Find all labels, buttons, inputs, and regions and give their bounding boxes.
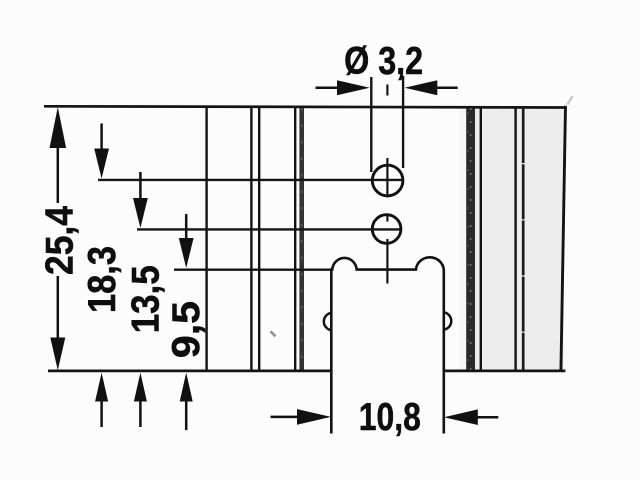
heatsink top edge: [44, 106, 565, 107]
svg-text:18,3: 18,3: [81, 246, 124, 313]
transistor left side bump: [324, 313, 331, 330]
hole diameter extension line left: [370, 77, 372, 172]
bottom arrow up x101: [95, 373, 108, 427]
dim 10,8 arrow left-pointing: [444, 409, 498, 425]
hole 2 (lower): [372, 215, 401, 244]
scan speck: [270, 330, 277, 337]
fin line x251: [250, 108, 252, 370]
fin line x259: [258, 108, 260, 370]
centerline segment top: [386, 85, 388, 96]
heatsink bottom edge left segment: [48, 370, 331, 373]
dim 25,4 arrow down: [50, 276, 65, 370]
dim 13,5 arrow down: [133, 172, 148, 228]
dim 10,8 arrow right-pointing: [271, 409, 331, 425]
dim 25,4 arrow up: [50, 107, 67, 203]
leader line 13,5: [137, 228, 401, 230]
hole diameter extension line right: [402, 76, 404, 168]
leader line 18,3: [98, 179, 403, 181]
body shading right section: [459, 107, 564, 370]
fin band x470 textured: [466, 108, 475, 370]
fin line x481: [480, 108, 482, 370]
fin line x295: [294, 108, 296, 370]
centerline segment through hole 1: [386, 158, 388, 198]
svg-text:13,5: 13,5: [125, 265, 168, 333]
centerline dash between holes: [386, 216, 388, 222]
bottom arrow up x140: [134, 373, 147, 427]
dim 9,5 arrow down: [179, 214, 194, 268]
fin line x515: [514, 108, 516, 370]
scan smudge near top-right corner: [568, 96, 573, 105]
hole 1 (upper): [372, 165, 403, 196]
svg-text:9,5: 9,5: [165, 301, 208, 358]
heatsink bottom edge right segment: [444, 370, 565, 373]
heatsink right edge: [561, 106, 566, 372]
svg-text:10,8: 10,8: [359, 396, 421, 439]
fin line x206: [205, 108, 207, 370]
fin line x523 textured: [522, 108, 525, 370]
centerline segment through hole 2 down to tab: [386, 239, 388, 284]
dia 3,2 arrow left-pointing: [405, 80, 458, 95]
svg-text:25,4: 25,4: [38, 205, 81, 275]
transistor right side bump: [444, 312, 451, 329]
dia 3,2 arrow right-pointing: [316, 80, 370, 95]
svg-text:Ø 3,2: Ø 3,2: [344, 40, 423, 83]
dim 18,3 arrow down: [94, 124, 109, 179]
transistor outline (TO-220 tab with ears): [331, 257, 444, 433]
fin band x301 textured: [299, 108, 304, 370]
bottom arrow up x186: [180, 373, 193, 430]
leader line 9,5: [174, 269, 332, 271]
transistor body fill: [331, 257, 444, 433]
